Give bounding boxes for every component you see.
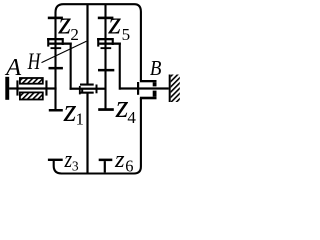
svg-text:z: z (108, 6, 122, 42)
svg-text:z: z (58, 6, 72, 42)
svg-text:B: B (150, 57, 162, 80)
svg-text:z: z (114, 146, 125, 173)
svg-text:4: 4 (127, 108, 136, 127)
svg-text:5: 5 (122, 25, 131, 44)
svg-text:H: H (27, 50, 42, 75)
svg-text:6: 6 (125, 157, 133, 176)
svg-text:1: 1 (76, 110, 85, 129)
svg-text:2: 2 (70, 25, 79, 44)
svg-text:3: 3 (72, 158, 79, 173)
svg-text:A: A (4, 54, 22, 81)
